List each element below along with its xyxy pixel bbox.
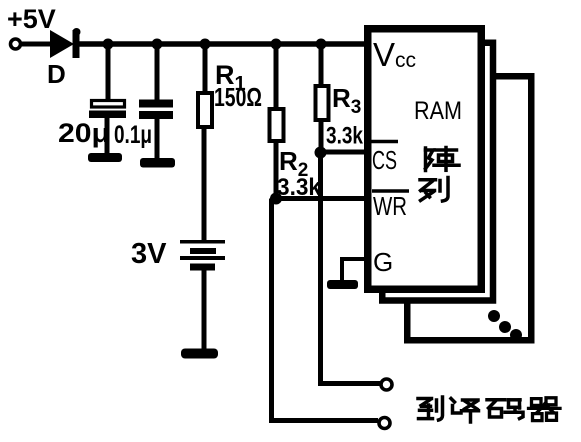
svg-text:RAM: RAM xyxy=(414,97,462,125)
node R3 tap xyxy=(316,39,327,50)
svg-text:3.3k: 3.3k xyxy=(326,123,364,150)
wire rail to C1 xyxy=(106,44,111,100)
pin WR label with overline xyxy=(372,191,409,221)
node R2/WR junction xyxy=(270,193,282,205)
hanzi ma (code) xyxy=(487,400,523,419)
svg-text:3V: 3V xyxy=(131,238,167,270)
ellipsis dots more chips xyxy=(488,310,522,341)
RAM chip 3 (back) xyxy=(407,76,531,340)
ground C2 xyxy=(140,158,175,168)
node R1 tap xyxy=(200,39,211,50)
hanzi qi (device) xyxy=(529,398,561,421)
terminal to decoder upper xyxy=(381,379,392,390)
svg-text:WR: WR xyxy=(373,191,407,221)
wire input to diode xyxy=(20,42,53,47)
svg-text:D: D xyxy=(47,59,66,89)
node C1 tap xyxy=(103,39,114,50)
resistor R2 xyxy=(270,109,284,141)
ground battery xyxy=(181,349,218,359)
svg-text:150Ω: 150Ω xyxy=(214,82,262,112)
wire top rail xyxy=(78,41,366,47)
resistor R3 xyxy=(316,86,329,120)
svg-text:G: G xyxy=(373,247,393,277)
hanzi lie (array char 2) xyxy=(420,178,448,202)
svg-text:CS: CS xyxy=(372,145,397,175)
wire WR line xyxy=(276,196,366,201)
wire R1 to battery xyxy=(202,127,207,241)
ground C1 xyxy=(88,153,122,162)
svg-text:20μ: 20μ xyxy=(58,118,110,148)
wire rail to R1 xyxy=(203,44,208,94)
svg-text:0.1μ: 0.1μ xyxy=(114,121,152,149)
wire G to ground xyxy=(342,259,366,282)
pin CS label with overline xyxy=(371,142,398,176)
wire rail to R3 xyxy=(319,44,324,87)
terminal +5V input xyxy=(11,39,21,49)
capacitor C2 0.1u xyxy=(139,100,173,120)
wire R3 to node xyxy=(319,120,324,152)
wire battery to ground xyxy=(202,270,207,350)
terminal to decoder lower xyxy=(379,418,390,429)
RAM chip U1 (front) xyxy=(368,29,482,290)
svg-text:+5V: +5V xyxy=(7,4,56,34)
node R2 tap xyxy=(271,39,282,50)
hanzi yi (translate) xyxy=(451,399,479,423)
node C2 tap xyxy=(152,39,163,50)
wire C1 to ground xyxy=(105,118,110,155)
battery 3V xyxy=(180,240,225,271)
wire R2 node down to decoder xyxy=(272,199,379,421)
wire C2 to ground xyxy=(155,119,160,160)
hanzi zhen (array char 1) xyxy=(426,148,460,171)
ground G xyxy=(327,280,358,289)
hanzi dao (to) xyxy=(418,397,443,420)
wire rail to R2 xyxy=(274,44,279,110)
diode D xyxy=(50,28,81,58)
wire rail to C2 xyxy=(155,44,160,102)
capacitor C1 20u xyxy=(89,101,126,119)
wire R2 to node xyxy=(274,141,279,198)
wire CS line xyxy=(321,150,366,155)
node R3/CS junction xyxy=(315,147,327,159)
resistor R1 xyxy=(198,93,212,127)
RAM chip 2 (middle) xyxy=(382,43,493,301)
wire R3 node down to decoder xyxy=(321,153,381,384)
